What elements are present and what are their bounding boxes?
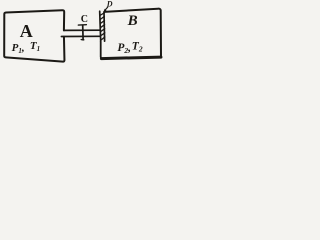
svg-text:P2,: P2, [117, 42, 131, 55]
svg-text:C: C [81, 14, 88, 25]
label D arrow shaft [104, 7, 107, 11]
porous plug D right line [103, 12, 106, 41]
svg-text:A: A [20, 21, 33, 41]
svg-text:D: D [106, 0, 113, 9]
porous plug D hatching [100, 13, 105, 41]
vessel A outline [4, 10, 64, 61]
tube upper wall [64, 29, 100, 31]
svg-text:P1,: P1, [12, 42, 25, 55]
background paper [0, 0, 168, 71]
porous plug D left line [100, 11, 101, 41]
label D arrowhead [104, 9, 107, 12]
svg-text:B: B [127, 13, 138, 29]
stopcock C cap [78, 24, 86, 26]
vessel B bottom wall [101, 57, 161, 59]
vessel B lower-left wall [101, 42, 103, 59]
stopcock C stem [82, 25, 84, 40]
tube lower wall [61, 35, 100, 37]
vessel B top and right walls [104, 9, 161, 57]
stopcock C stem foot [81, 39, 84, 41]
